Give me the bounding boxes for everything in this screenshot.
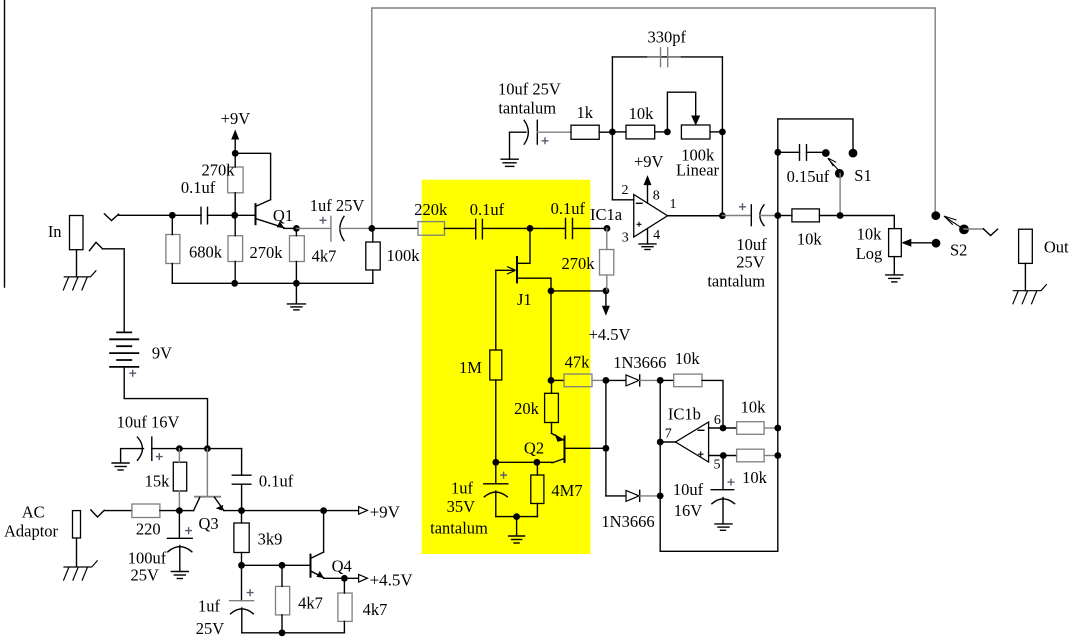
svg-text:+9V: +9V <box>370 503 401 522</box>
svg-text:10uf: 10uf <box>736 235 767 254</box>
capacitor 10uf 25V tantalum output <box>739 203 746 210</box>
svg-text:270k: 270k <box>250 243 284 262</box>
wire In jack tip contact squiggle <box>104 214 118 221</box>
capacitor 100uf 25V <box>178 511 180 539</box>
svg-text:680k: 680k <box>189 242 223 261</box>
svg-text:7: 7 <box>665 426 672 441</box>
svg-text:3k9: 3k9 <box>258 530 283 549</box>
node 10uf16V/15k <box>176 445 183 452</box>
svg-text:1uf 25V: 1uf 25V <box>310 196 365 215</box>
ground chassis AC jack <box>63 560 97 580</box>
node Q3 base feed <box>204 445 211 452</box>
svg-text:10uf 16V: 10uf 16V <box>117 412 180 431</box>
svg-text:100k: 100k <box>387 246 421 265</box>
svg-text:1uf: 1uf <box>198 597 221 616</box>
wire Q3 collector to node <box>179 510 193 512</box>
capacitor 1uf 25V main <box>296 227 331 229</box>
svg-text:Q3: Q3 <box>199 514 219 533</box>
arrow +9V IC1a pin8 <box>647 185 649 204</box>
svg-text:1k: 1k <box>577 103 594 122</box>
node Q2 base <box>603 445 610 452</box>
node 220/15k/Q3/100uf <box>176 507 183 514</box>
jack Out <box>1019 229 1033 263</box>
capacitor 0.1uf second <box>530 227 566 229</box>
wire Q2 collector row <box>496 461 552 463</box>
svg-text:10k: 10k <box>741 398 767 417</box>
svg-text:AC: AC <box>22 503 45 522</box>
capacitor 10uf 16V battery filter <box>137 437 142 460</box>
battery 9V <box>109 332 139 367</box>
svg-text:10uf 25V: 10uf 25V <box>498 79 561 98</box>
svg-text:330pf: 330pf <box>647 28 686 47</box>
ground chassis Out jack <box>1013 284 1047 304</box>
ground chassis In jack <box>63 270 96 290</box>
svg-text:4M7: 4M7 <box>551 481 582 500</box>
switch S2 <box>931 211 940 220</box>
svg-text:10k: 10k <box>797 230 823 249</box>
wire Q1 emitter node <box>284 227 297 229</box>
wire IC1b box left vertical <box>659 380 661 551</box>
resistor 100k <box>366 242 380 270</box>
arrow +9V Q1 <box>234 139 236 153</box>
svg-text:1: 1 <box>670 197 677 212</box>
svg-text:tantalum: tantalum <box>498 99 556 118</box>
svg-text:0.1uf: 0.1uf <box>470 200 505 219</box>
svg-text:1N3666: 1N3666 <box>613 353 666 372</box>
svg-text:25V: 25V <box>196 619 225 638</box>
resistor 10k pin6 <box>737 422 765 435</box>
transistor J1 JFET <box>496 228 551 309</box>
node J1 drain <box>527 225 534 232</box>
resistor 20k <box>545 393 559 422</box>
wire Q2 base vertical <box>605 380 607 496</box>
svg-text:tantalum: tantalum <box>430 519 488 538</box>
node diode/10k fb <box>657 377 664 384</box>
arrow +4.5V output <box>359 574 368 582</box>
potentiometer 100k Linear <box>681 125 710 139</box>
node 1uf/100k/220k/bypass <box>368 225 375 232</box>
wire J1 source row <box>551 290 606 292</box>
transistor Q3 <box>194 449 224 533</box>
svg-text:tantalum: tantalum <box>707 271 765 290</box>
resistor 4k7 Q1 <box>290 236 305 262</box>
resistor 220k <box>372 227 418 229</box>
svg-text:6: 6 <box>714 413 721 428</box>
svg-text:1uf: 1uf <box>451 479 474 498</box>
resistor 4k7 Q4 base <box>276 586 290 615</box>
svg-text:+9V: +9V <box>221 109 251 128</box>
capacitor 10uf 16V IC1b <box>722 456 724 490</box>
svg-text:+4.5V: +4.5V <box>370 570 414 589</box>
ground rail symbol <box>295 283 297 303</box>
svg-text:Adaptor: Adaptor <box>4 522 59 541</box>
svg-text:3: 3 <box>622 230 629 245</box>
highlight yellow region <box>422 180 591 554</box>
svg-text:S1: S1 <box>854 166 871 185</box>
svg-text:15k: 15k <box>145 471 171 490</box>
capacitor 0.1uf first <box>475 219 477 238</box>
svg-text:IC1a: IC1a <box>590 205 623 224</box>
wire S1 top loop <box>778 119 853 149</box>
wire Out jack sleeve stem <box>1024 263 1026 290</box>
svg-text:1N3666: 1N3666 <box>601 512 654 531</box>
ground 100uf <box>171 572 188 579</box>
capacitor 330pf <box>648 56 661 58</box>
jack In <box>70 216 84 250</box>
capacitor 1uf 35V tantalum <box>495 462 497 484</box>
node 1k/10k <box>609 129 616 136</box>
wire bottom rail <box>242 632 345 634</box>
resistor 220 <box>132 504 160 518</box>
svg-text:4k7: 4k7 <box>363 600 388 619</box>
wire IC1b pin6 row <box>709 427 737 429</box>
wire AC tip to 220 <box>104 510 132 512</box>
resistor 1M <box>495 270 497 350</box>
node +9V/collector <box>232 150 239 157</box>
wire Q3 emitter to +9V node <box>224 510 242 512</box>
svg-text:10k: 10k <box>742 468 768 487</box>
potentiometer 10k Log <box>889 229 902 257</box>
resistor 270k J1 <box>600 250 614 276</box>
resistor 3k9 <box>234 523 249 553</box>
svg-text:S2: S2 <box>950 241 967 260</box>
wire ring contact to battery negative <box>103 249 125 333</box>
svg-text:25V: 25V <box>130 566 159 585</box>
node 0.1uf/3k9 <box>238 507 245 514</box>
wire Q4 base row <box>242 564 311 566</box>
transistor Q2 <box>524 433 606 463</box>
transistor Q4 <box>311 511 352 578</box>
svg-text:4: 4 <box>653 228 660 243</box>
resistor 1k <box>571 125 599 139</box>
node rail <box>279 629 286 636</box>
wire ground rail Q1 <box>172 282 373 284</box>
svg-text:In: In <box>48 222 62 241</box>
ground tantalum <box>516 517 518 536</box>
svg-text:47k: 47k <box>565 353 591 372</box>
capacitor 0.15uf <box>778 151 800 153</box>
wire gray bypass from top of 100k node to S2 <box>372 8 935 228</box>
ground 10uf16V IC1b <box>715 524 732 530</box>
wire IC1b box bottom <box>660 550 778 552</box>
node 0.15uf left <box>774 149 781 156</box>
svg-text:+4.5V: +4.5V <box>589 325 631 344</box>
node IC1a pin3 <box>604 225 611 232</box>
svg-text:35V: 35V <box>447 497 476 516</box>
svg-text:4k7: 4k7 <box>298 593 323 612</box>
svg-text:16V: 16V <box>674 501 703 520</box>
resistor 10k feedback <box>660 379 674 381</box>
resistor 15k <box>173 462 186 491</box>
resistor 4k7 Q4 emitter <box>338 593 352 621</box>
wire +9V row <box>242 510 359 512</box>
svg-text:10k: 10k <box>629 104 655 123</box>
capacitor 0.1uf power <box>241 449 243 476</box>
svg-text:25V: 25V <box>736 253 765 272</box>
wire IC1b pin5 row <box>709 455 737 457</box>
node 47k/diode <box>603 377 610 384</box>
wire tantalum rail <box>496 516 538 518</box>
node 4k7 emitter <box>341 575 348 582</box>
svg-text:4k7: 4k7 <box>312 247 337 266</box>
svg-text:20k: 20k <box>514 399 540 418</box>
svg-text:Linear: Linear <box>676 161 720 180</box>
wire battery feed row <box>152 448 242 450</box>
op-amp IC1b <box>660 405 721 473</box>
svg-text:Q4: Q4 <box>332 557 352 576</box>
wire to volume pot <box>840 216 894 229</box>
resistor 10k pin5 <box>737 449 765 462</box>
wire AC jack sleeve stem <box>76 538 78 566</box>
svg-text:270k: 270k <box>202 161 236 180</box>
page left border <box>4 0 6 287</box>
op-amp IC1a <box>612 183 676 246</box>
wire input row to 680k node <box>119 214 173 216</box>
resistor 47k <box>551 379 564 381</box>
svg-text:J1: J1 <box>517 290 532 309</box>
wiper arrow 10k Log <box>932 239 941 248</box>
svg-text:Out: Out <box>1044 238 1069 257</box>
svg-text:10k: 10k <box>857 225 883 244</box>
transistor Q1 <box>235 153 293 228</box>
resistor 270k base-gnd <box>228 236 243 262</box>
wire In jack sleeve stem <box>76 250 78 277</box>
svg-text:270k: 270k <box>562 254 596 273</box>
capacitor 0.1uf Q1 base <box>172 214 201 216</box>
svg-text:10k: 10k <box>675 349 701 368</box>
capacitor 10uf 25V tantalum pin2 <box>501 159 518 166</box>
wire IC1a output row <box>668 215 723 217</box>
ground 10uf16V <box>112 463 129 470</box>
svg-text:8: 8 <box>653 189 660 204</box>
diode 1N3666 top <box>606 379 626 381</box>
node 3k9/1uf <box>238 562 245 569</box>
resistor 4M7 <box>531 475 544 504</box>
svg-text:220k: 220k <box>414 200 448 219</box>
ground 10k Log <box>893 257 895 275</box>
wire 10uf16V negative lead to ground <box>121 449 144 463</box>
jack AC Adaptor <box>73 511 81 538</box>
svg-text:+9V: +9V <box>634 152 664 171</box>
resistor 680k <box>166 235 180 264</box>
svg-text:Q2: Q2 <box>524 438 544 457</box>
wire AC jack tip squiggle <box>91 510 105 517</box>
svg-text:220: 220 <box>136 520 161 539</box>
svg-text:1M: 1M <box>459 358 482 377</box>
svg-text:10uf: 10uf <box>673 480 704 499</box>
node 4k7 base <box>279 562 286 569</box>
ground IC1a pin4 <box>647 228 649 244</box>
wire J1 source down to 47k node <box>550 291 552 381</box>
wire IC1b box right vertical <box>777 119 779 551</box>
switch S1 <box>822 149 830 157</box>
svg-text:100uf: 100uf <box>128 548 167 567</box>
svg-text:5: 5 <box>714 457 721 472</box>
resistor 10k gain <box>612 131 626 133</box>
wire Q4 emitter row <box>324 577 359 579</box>
arrow +9V output <box>359 507 368 515</box>
svg-text:0.1uf: 0.1uf <box>551 199 586 218</box>
svg-text:2: 2 <box>622 183 629 198</box>
capacitor 1uf 25V Q4 <box>241 565 243 600</box>
svg-text:9V: 9V <box>152 344 172 363</box>
svg-text:0.1uf: 0.1uf <box>259 471 294 490</box>
resistor 10k output <box>792 209 820 222</box>
node Q1 base <box>231 212 238 219</box>
arrow +4.5V J1 <box>605 291 607 307</box>
wire S1 arm to 10k node <box>839 173 841 215</box>
wire 330pf box <box>612 56 722 58</box>
node output bus <box>774 212 781 219</box>
node 10k/100k pot <box>664 129 671 136</box>
diode 1N3666 bottom <box>606 495 626 497</box>
svg-text:0.15uf: 0.15uf <box>787 167 830 186</box>
wire battery positive to power node <box>124 367 207 449</box>
wire S2 to Out jack squiggle <box>964 228 983 230</box>
svg-text:Log: Log <box>856 244 883 263</box>
svg-text:Q1: Q1 <box>273 206 293 225</box>
resistor 270k top <box>228 167 243 193</box>
svg-text:IC1b: IC1b <box>668 405 701 424</box>
svg-text:0.1uf: 0.1uf <box>181 178 216 197</box>
node input/680k <box>169 212 176 219</box>
wire In jack ring contact squiggle <box>90 242 103 250</box>
node Q4 collector branch <box>320 507 327 514</box>
